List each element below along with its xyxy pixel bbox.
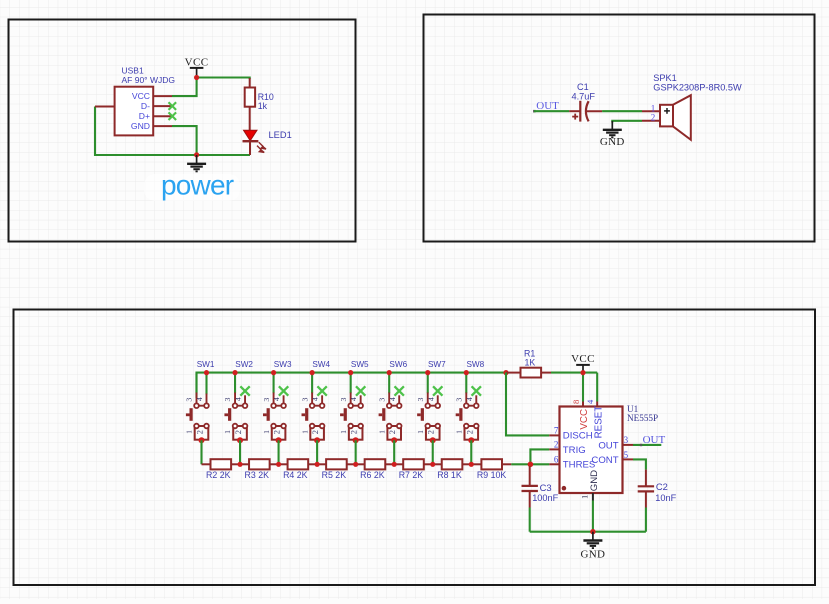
svg-text:1: 1 <box>185 430 194 434</box>
svg-text:4: 4 <box>234 397 243 401</box>
svg-text:1: 1 <box>300 430 309 434</box>
svg-text:4: 4 <box>585 399 595 404</box>
svg-text:R5 2K: R5 2K <box>322 470 347 480</box>
svg-text:GSPK2308P-8R0.5W: GSPK2308P-8R0.5W <box>653 83 742 93</box>
USB1 pin D+ <box>153 115 172 117</box>
switch SW3 <box>262 360 292 464</box>
svg-text:2: 2 <box>465 430 474 434</box>
svg-text:VCC: VCC <box>579 409 590 430</box>
svg-text:6: 6 <box>554 455 559 465</box>
svg-text:2: 2 <box>196 430 205 434</box>
svg-text:3: 3 <box>339 398 348 402</box>
svg-text:GND: GND <box>589 470 600 491</box>
switch SW6 <box>377 360 407 464</box>
svg-text:R3 2K: R3 2K <box>245 470 270 480</box>
junction dots resistor chain <box>237 462 473 467</box>
wire DISCH net <box>506 373 549 436</box>
svg-text:8: 8 <box>571 400 581 404</box>
svg-text:OUT: OUT <box>598 441 618 452</box>
wire VCC-net box1 <box>172 78 197 97</box>
svg-text:GND: GND <box>581 549 606 561</box>
svg-text:4: 4 <box>272 397 281 401</box>
switch SW1 <box>185 360 215 464</box>
svg-text:TRIG: TRIG <box>563 445 586 456</box>
svg-text:2: 2 <box>350 430 359 434</box>
power flag VCC2 <box>571 353 595 372</box>
svg-text:2: 2 <box>234 430 243 434</box>
no-connect flag on D- <box>169 102 177 110</box>
svg-text:1: 1 <box>223 430 232 434</box>
svg-text:100nF: 100nF <box>532 493 558 503</box>
svg-text:VCC: VCC <box>185 57 209 69</box>
svg-text:4.7uF: 4.7uF <box>572 92 596 102</box>
junction bottom gnd node <box>194 152 199 157</box>
USB1 pin GND <box>153 125 172 127</box>
svg-text:R6 2K: R6 2K <box>360 470 385 480</box>
svg-text:SW7: SW7 <box>428 360 446 369</box>
sheet frame box 3 (keys/555) <box>14 310 816 586</box>
capacitor C3 100nF <box>529 466 531 486</box>
svg-text:C3: C3 <box>540 482 552 493</box>
wire R1 to VCC and pin8/4 <box>551 372 597 374</box>
svg-text:NE555P: NE555P <box>627 413 658 423</box>
svg-text:1: 1 <box>454 430 463 434</box>
resistor R9 <box>471 459 530 480</box>
svg-text:5: 5 <box>624 450 629 460</box>
svg-text:2: 2 <box>651 112 656 122</box>
svg-text:SW3: SW3 <box>274 360 292 369</box>
svg-text:2: 2 <box>311 430 320 434</box>
wire left shell to gnd <box>95 107 250 156</box>
netlabel OUT box2 <box>533 110 536 113</box>
wire CONT to C2 <box>623 458 634 460</box>
svg-text:3: 3 <box>377 398 386 402</box>
svg-text:R2 2K: R2 2K <box>206 470 231 480</box>
svg-text:VCC: VCC <box>571 353 595 365</box>
svg-text:4: 4 <box>195 397 204 401</box>
svg-text:4: 4 <box>311 397 320 401</box>
switch SW8 <box>454 360 484 464</box>
wire C1 to SPK1 pin1 <box>602 110 642 112</box>
svg-text:R9 10K: R9 10K <box>477 470 506 480</box>
sheet frame box 1 (power) <box>9 20 356 242</box>
wire C2 to gnd rail <box>645 508 647 532</box>
svg-text:1: 1 <box>339 430 348 434</box>
svg-text:3: 3 <box>300 398 309 402</box>
svg-text:10nF: 10nF <box>655 493 676 503</box>
svg-text:4: 4 <box>349 397 358 401</box>
wire TRIG net <box>530 449 549 464</box>
svg-text:3: 3 <box>185 398 194 402</box>
U1 pin1 wire to gnd <box>592 493 594 501</box>
svg-text:3: 3 <box>416 398 425 402</box>
ground GND box3 <box>581 532 606 561</box>
resistor R2 <box>202 459 241 480</box>
svg-text:1K: 1K <box>525 357 536 367</box>
svg-text:SW6: SW6 <box>389 360 407 369</box>
capacitor C2 10nF <box>645 470 647 486</box>
svg-text:SW1: SW1 <box>197 360 215 369</box>
resistor R4 <box>279 459 318 480</box>
svg-text:RESET: RESET <box>593 406 604 439</box>
svg-text:2: 2 <box>273 430 282 434</box>
junction under VCC1 <box>194 75 199 80</box>
wire OUT to C1 <box>534 110 569 112</box>
switch SW4 <box>300 360 330 464</box>
svg-text:2: 2 <box>388 430 397 434</box>
resistor R8 <box>433 459 472 480</box>
svg-text:SW2: SW2 <box>235 360 253 369</box>
svg-text:3: 3 <box>223 398 232 402</box>
svg-text:VCC: VCC <box>132 91 150 101</box>
wire OUT net box3 <box>623 444 634 446</box>
svg-text:3: 3 <box>262 398 271 402</box>
ground GND box2 <box>600 121 625 148</box>
svg-text:R4 2K: R4 2K <box>283 470 308 480</box>
svg-text:1: 1 <box>262 430 271 434</box>
switch SW7 <box>416 360 446 464</box>
resistor R10 <box>249 78 251 88</box>
svg-text:GND: GND <box>131 121 150 131</box>
wire SPK1 pin2 to gnd <box>612 121 642 123</box>
svg-text:D-: D- <box>141 101 150 111</box>
resistor R7 <box>394 459 433 480</box>
svg-text:AF 90° WJDG: AF 90° WJDG <box>122 75 175 85</box>
svg-text:2: 2 <box>554 440 559 450</box>
wire C3 to gnd rail <box>529 508 531 532</box>
capacitor C1 4.7uF polarized <box>569 110 580 112</box>
resistor R6 <box>356 459 395 480</box>
text power (cyan) <box>144 174 240 201</box>
ground GND box1 <box>187 155 206 171</box>
svg-text:LED1: LED1 <box>269 130 292 140</box>
connector USB1 body <box>115 87 154 136</box>
svg-text:1k: 1k <box>258 101 268 111</box>
LED LED1 <box>244 130 258 141</box>
power flag VCC1 <box>185 57 209 76</box>
svg-text:DISCH: DISCH <box>563 431 593 442</box>
svg-text:OUT: OUT <box>643 434 666 446</box>
svg-text:D+: D+ <box>139 111 150 121</box>
svg-text:R7 2K: R7 2K <box>399 470 424 480</box>
top rail wire box3 <box>197 373 507 398</box>
switch SW5 <box>339 360 369 464</box>
svg-text:1: 1 <box>377 430 386 434</box>
svg-text:SW5: SW5 <box>351 360 369 369</box>
svg-text:C2: C2 <box>656 481 668 492</box>
svg-text:4: 4 <box>465 397 474 401</box>
USB1 shell pin left <box>95 106 115 108</box>
op-amp U1 NE555P body <box>582 402 584 407</box>
junction gnd rail <box>590 529 595 534</box>
resistor R3 <box>240 459 279 480</box>
svg-text:2: 2 <box>427 430 436 434</box>
svg-text:GND: GND <box>600 136 625 148</box>
svg-text:7: 7 <box>554 426 559 436</box>
svg-text:3: 3 <box>454 398 463 402</box>
svg-text:1: 1 <box>416 430 425 434</box>
svg-text:CONT: CONT <box>591 455 618 466</box>
svg-text:3: 3 <box>624 435 629 445</box>
svg-text:SPK1: SPK1 <box>653 73 677 83</box>
svg-text:4: 4 <box>388 397 397 401</box>
wire THRES net <box>530 463 549 465</box>
svg-text:power: power <box>161 170 234 201</box>
svg-text:SW4: SW4 <box>312 360 330 369</box>
resistor R1 <box>503 370 508 375</box>
wire GND-net box1 <box>172 126 197 155</box>
gnd rail wire <box>530 531 646 533</box>
svg-text:SW8: SW8 <box>466 360 484 369</box>
no-connect flag on D+ <box>169 112 177 120</box>
svg-text:R8 1K: R8 1K <box>437 470 462 480</box>
junction THRES node <box>528 462 534 468</box>
speaker SPK1 <box>642 110 660 112</box>
sheet frame box 2 (speaker) <box>424 15 815 242</box>
switch SW2 <box>223 360 253 464</box>
svg-text:4: 4 <box>426 397 435 401</box>
USB1 pin VCC <box>153 95 172 97</box>
resistor R5 <box>317 459 356 480</box>
svg-text:1: 1 <box>580 495 590 499</box>
USB1 pin D- <box>153 105 172 107</box>
